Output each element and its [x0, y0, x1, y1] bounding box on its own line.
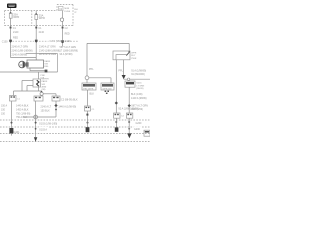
- svg-text:2140 A LT: 2140 A LT: [41, 105, 52, 108]
- svg-text:150 BLK: 150 BLK: [41, 110, 51, 113]
- svg-text:750 (1/98-99): 750 (1/98-99): [16, 112, 31, 115]
- long ground line: [0, 71, 58, 73]
- branch junction ring: [127, 78, 129, 80]
- connector pair box2: [52, 96, 60, 101]
- svg-text:91 (99/2000): 91 (99/2000): [131, 73, 145, 76]
- wire W3 lower: [62, 43, 64, 46]
- svg-text:(98-99): (98-99): [136, 88, 143, 90]
- svg-text:1440 A (1/98-99): 1440 A (1/98-99): [58, 106, 76, 109]
- dashed divider: [31, 11, 33, 26]
- wire B tail + arrow: [128, 118, 130, 133]
- svg-text:PWR: PWR: [131, 58, 137, 60]
- firewall connector squares: [9, 40, 64, 44]
- svg-text:(98): (98): [42, 89, 46, 91]
- svg-text:1440 A BLK: 1440 A BLK: [16, 104, 29, 107]
- connector label C2 box: [59, 6, 63, 10]
- svg-text:C100: C100: [65, 40, 71, 43]
- ground blob right1: [86, 127, 90, 132]
- connector L1: [10, 96, 17, 102]
- svg-text:2140 (1/88-1/89/98): 2140 (1/88-1/89/98): [39, 49, 60, 52]
- firewall dashed row: [13, 40, 79, 42]
- ground dashed rows: [0, 120, 150, 142]
- svg-text:G200: G200: [136, 122, 143, 125]
- wire below L1: [11, 101, 13, 128]
- svg-text:150: 150: [1, 108, 6, 111]
- svg-text:5877 A LT GRN: 5877 A LT GRN: [60, 46, 77, 49]
- svg-text:2140 (1/88-1/89/98): 2140 (1/88-1/89/98): [12, 50, 33, 53]
- switch left wiring: [14, 81, 42, 96]
- svg-text:WPR MTR ASM: WPR MTR ASM: [39, 53, 56, 56]
- svg-text:WPR: WPR: [39, 16, 45, 20]
- wire F3 with grommet: [60, 11, 63, 40]
- svg-text:1440 A (98/99): 1440 A (98/99): [131, 97, 147, 100]
- branch to connector pair right: [43, 94, 56, 96]
- svg-text:WPR: WPR: [13, 15, 19, 19]
- svg-text:G103 (1/98-1/99): G103 (1/98-1/99): [39, 122, 57, 125]
- wire below R1: [87, 90, 89, 106]
- svg-text:BLK: BLK: [90, 93, 95, 96]
- svg-text:C100: C100: [2, 40, 8, 43]
- park switch box: [33, 79, 41, 87]
- relay pin A wire: [115, 60, 117, 113]
- svg-text:FRT WPR: FRT WPR: [83, 88, 93, 90]
- wire A tail + blob: [116, 118, 118, 127]
- svg-text:G103 A: G103 A: [39, 128, 47, 131]
- connector RA: [114, 113, 120, 118]
- svg-text:PPL: PPL: [89, 68, 94, 71]
- svg-text:S216: S216: [136, 83, 142, 85]
- svg-text:PARK: PARK: [44, 60, 50, 63]
- svg-text:2140 A LT GRN: 2140 A LT GRN: [39, 46, 56, 49]
- dots at dash crossings: [11, 121, 131, 130]
- svg-text:G101: G101: [14, 131, 21, 134]
- wire below box1: [35, 101, 37, 137]
- wire below box2: [24, 101, 57, 117]
- motor circle: [19, 61, 28, 68]
- wire below inner box: [30, 68, 45, 71]
- splice ring S: [34, 115, 38, 119]
- fuse block dashed outline: [5, 5, 74, 26]
- svg-text:RLY: RLY: [131, 55, 136, 57]
- svg-text:17 (1/88-1/89/98): 17 (1/88-1/89/98): [60, 49, 79, 52]
- svg-text:ASM: ASM: [42, 85, 47, 88]
- component box R2: [101, 83, 114, 90]
- svg-text:WPR SW: WPR SW: [102, 88, 112, 90]
- junction blob on ground line: [45, 70, 48, 73]
- diamond on wire box2: [54, 104, 57, 107]
- svg-text:2140 A LT GRN: 2140 A LT GRN: [12, 46, 29, 49]
- wire below R3: [128, 87, 130, 113]
- wire W2 lower: [35, 43, 37, 60]
- ground blob left: [9, 128, 13, 133]
- svg-text:RED: RED: [13, 37, 18, 40]
- connector pair box1: [34, 96, 43, 101]
- fuse block label box: [7, 4, 17, 9]
- svg-text:G200: G200: [134, 128, 141, 131]
- svg-text:LT GRN: LT GRN: [136, 85, 144, 87]
- svg-text:2140: 2140: [13, 31, 19, 34]
- svg-text:92 A (1/98-1/99/98): 92 A (1/98-1/99/98): [118, 108, 139, 111]
- svg-text:150 A: 150 A: [1, 104, 8, 107]
- arrow bottom mid: [34, 137, 37, 142]
- svg-text:2140: 2140: [39, 31, 45, 34]
- svg-text:750 A BLK: 750 A BLK: [16, 116, 28, 119]
- relay U1 box: [113, 51, 130, 60]
- svg-text:C2 (98-99) BLK: C2 (98-99) BLK: [61, 99, 78, 102]
- svg-text:91 A (1/98/99): 91 A (1/98/99): [131, 70, 146, 73]
- svg-text:150: 150: [1, 112, 6, 115]
- fuse F1: [9, 8, 12, 40]
- branch from ring to box R2: [89, 78, 111, 83]
- wire W1 horizontal to motor: [11, 57, 37, 59]
- motor inner box: [27, 60, 44, 68]
- connector RB: [126, 113, 132, 118]
- diamond on pin A: [115, 101, 118, 104]
- component box R3: [125, 81, 135, 87]
- splice ring under switch: [41, 91, 43, 92]
- svg-text:PARK: PARK: [42, 80, 48, 83]
- wiper motor outer box: [26, 54, 58, 73]
- svg-text:RH: RH: [74, 9, 78, 11]
- svg-text:2140 A (98/99): 2140 A (98/99): [12, 54, 28, 57]
- fuse F2: [35, 11, 38, 40]
- relay pin B wire with arrow: [123, 60, 125, 75]
- svg-text:RED: RED: [65, 33, 70, 36]
- svg-text:1450 A BLK: 1450 A BLK: [16, 108, 29, 111]
- wire W1 lower: [10, 43, 12, 58]
- component box R1: [82, 83, 96, 90]
- svg-text:BLK (1/99): BLK (1/99): [131, 93, 143, 96]
- bottom right ref box: [144, 130, 150, 136]
- switch zigzag: [37, 80, 39, 86]
- svg-text:C202 (98/99): C202 (98/99): [50, 40, 64, 43]
- svg-text:MINI: MINI: [64, 8, 69, 10]
- svg-text:FUSE: FUSE: [64, 11, 70, 13]
- ring splice on left drop: [85, 76, 89, 80]
- switch feed wire: [38, 72, 40, 79]
- connector dots under fuse block: [10, 27, 64, 29]
- svg-text:WPR: WPR: [131, 52, 137, 54]
- svg-text:PPL: PPL: [118, 70, 123, 73]
- branch right: [124, 79, 150, 81]
- relay feed wire path: [87, 43, 129, 76]
- svg-text:93 A (97/98): 93 A (97/98): [60, 53, 73, 56]
- bottom labels between rows: [39, 121, 58, 125]
